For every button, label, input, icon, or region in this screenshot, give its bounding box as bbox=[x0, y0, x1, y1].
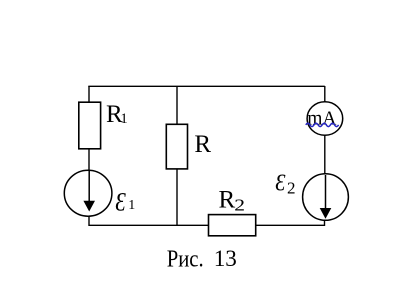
wire: right branch middle bbox=[324, 135, 326, 175]
source E2 bbox=[303, 174, 349, 221]
wire: right branch upper bbox=[324, 86, 326, 102]
svg-text:2: 2 bbox=[287, 179, 296, 198]
wire: middle branch lower bbox=[176, 169, 178, 226]
svg-text:13: 13 bbox=[214, 246, 237, 272]
svg-text:Ɛ: Ɛ bbox=[275, 169, 286, 196]
wire: stub up to E2 bottom bbox=[324, 220, 326, 227]
source E2 arrow bbox=[325, 175, 327, 210]
label E2 bbox=[275, 169, 286, 196]
source E1 bbox=[64, 170, 112, 216]
label E1 bbox=[115, 189, 126, 217]
caption: Рис. bbox=[167, 245, 204, 272]
svg-text:1: 1 bbox=[120, 111, 128, 127]
wire: bottom horizontal bbox=[89, 224, 325, 226]
wire: left branch upper bbox=[88, 86, 90, 103]
wire: top horizontal bbox=[88, 85, 324, 87]
svg-text:2: 2 bbox=[234, 196, 245, 215]
ammeter mA bbox=[307, 102, 343, 136]
svg-text:Ɛ: Ɛ bbox=[115, 189, 126, 217]
svg-text:1: 1 bbox=[128, 198, 135, 213]
resistor R2 bbox=[209, 215, 256, 236]
svg-text:R: R bbox=[194, 131, 211, 158]
wire: left branch lower bbox=[88, 216, 90, 227]
source E1 arrow bbox=[88, 170, 90, 203]
resistor R bbox=[166, 124, 187, 169]
resistor R1 bbox=[79, 102, 101, 149]
spellcheck squiggle under mA bbox=[306, 123, 339, 126]
wire: middle branch upper bbox=[176, 86, 178, 125]
svg-text:R: R bbox=[219, 186, 236, 213]
wire: left branch middle bbox=[88, 149, 90, 170]
svg-text:Рис.: Рис. bbox=[167, 245, 204, 272]
